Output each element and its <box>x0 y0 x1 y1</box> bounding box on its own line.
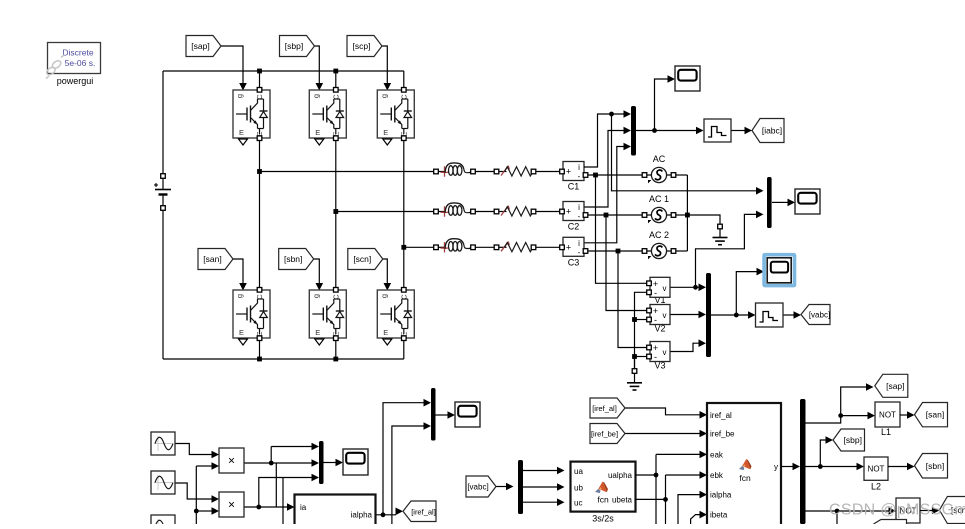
wire [iref_al] to fcn <box>625 408 707 419</box>
node Mux1 out junction <box>652 128 657 133</box>
wire [sbp] to gate <box>315 46 324 91</box>
current measurement C3 <box>560 237 588 267</box>
svg-text:E: E <box>383 328 388 337</box>
node V1 out junction <box>693 285 698 290</box>
node DC+ bus junctions <box>257 69 338 74</box>
svg-text:g: g <box>235 94 244 98</box>
wire RC-C3 <box>534 246 564 248</box>
wire RB-C2 <box>534 211 564 213</box>
wire L2 to [sbn] <box>888 463 915 471</box>
wire phase C line to filter <box>404 246 438 248</box>
mux Mux5 <box>431 388 436 441</box>
wire Product2 out to subsystem ia <box>244 503 295 511</box>
svg-text:ialpha: ialpha <box>351 511 373 520</box>
wire V3 plus tap <box>618 251 647 348</box>
IGBT Q2 <box>309 88 346 146</box>
wire V1 branch to Mux2 in2 <box>696 211 764 288</box>
wire Mux4 in3 <box>259 474 319 507</box>
svg-text:[san]: [san] <box>203 254 221 264</box>
wire V2 plus tap <box>606 215 647 311</box>
svg-text:E: E <box>383 128 388 137</box>
goto tag [iref_al] (bottom) <box>403 501 436 522</box>
wire ZOH1 to [iabc] <box>731 127 752 135</box>
svg-text:L1: L1 <box>881 427 891 437</box>
svg-text:5e-06 s.: 5e-06 s. <box>65 58 96 68</box>
svg-text:iref_be: iref_be <box>710 430 735 439</box>
wire Product1 out <box>244 443 319 467</box>
svg-text:AC 1: AC 1 <box>649 194 669 204</box>
wire V1 plus tap <box>596 175 648 283</box>
inductor La <box>434 163 476 177</box>
wire V1 minus to neutral rail <box>635 292 648 369</box>
svg-text:[iref_be]: [iref_be] <box>591 430 618 439</box>
svg-text:+: + <box>566 167 571 177</box>
svg-text:-: - <box>654 288 657 298</box>
MATLAB function 3s/2s <box>571 462 636 524</box>
node C1 i branch junction <box>609 112 614 117</box>
svg-text:ub: ub <box>574 484 583 493</box>
IGBT Q6 <box>377 288 414 346</box>
svg-text:g: g <box>311 94 320 98</box>
svg-text:[iref_al]: [iref_al] <box>411 507 436 516</box>
node AC neutral junction <box>685 213 690 218</box>
wire Demux2 row3 to NOT and [scp] <box>806 507 897 524</box>
wire [scn] to gate <box>383 259 391 291</box>
node phase C junction <box>401 245 406 250</box>
svg-text:E: E <box>239 128 244 137</box>
wire C3 minus to AC2 <box>584 250 645 252</box>
svg-text:y: y <box>774 463 778 472</box>
svg-text:v: v <box>663 311 667 320</box>
from tag [san] <box>198 249 233 270</box>
svg-text:E: E <box>239 328 244 337</box>
wire phase C vertical leg <box>403 71 405 290</box>
wire neutral to ground <box>687 215 720 224</box>
node DC- bus junctions <box>257 357 338 362</box>
from tag [iref_al] <box>590 398 625 418</box>
node C3 minus junction <box>616 249 621 254</box>
wire Demux2 row2 to NOT L2 and [sbp] <box>806 436 865 470</box>
svg-text:ibeta: ibeta <box>710 511 728 520</box>
voltage measurement V3 <box>647 342 670 371</box>
resistor Rc <box>494 241 536 252</box>
IGBT Q1 <box>233 88 270 146</box>
wire ia feedback to products <box>194 462 219 524</box>
svg-text:g: g <box>235 294 244 298</box>
svg-text:[sap]: [sap] <box>191 41 209 51</box>
wire C1 i branch to Mux2 in1 <box>612 114 764 195</box>
svg-text:v: v <box>663 348 667 357</box>
wire ubeta to ebk <box>636 471 708 524</box>
svg-text:eak: eak <box>710 451 724 460</box>
wire phase B line to filter <box>336 211 438 213</box>
svg-text:fcn: fcn <box>597 495 609 505</box>
wire ialpha out <box>375 508 403 518</box>
wire C2 minus to AC1 <box>584 214 645 216</box>
svg-text:-: - <box>578 172 581 181</box>
wire ZOH2 to [vabc] <box>783 311 801 319</box>
subsystem (current controller) <box>295 495 376 528</box>
svg-text:ua: ua <box>574 467 583 476</box>
svg-text:×: × <box>228 498 235 512</box>
node C2 minus junction <box>604 213 609 218</box>
svg-text:NOT: NOT <box>868 465 885 474</box>
current measurement C2 <box>560 202 588 232</box>
wire [sap] to gate <box>221 46 247 91</box>
IGBT Q3 <box>377 88 414 146</box>
svg-text:C1: C1 <box>568 182 580 192</box>
from tag [iref_be] <box>590 424 625 444</box>
svg-text:NOT: NOT <box>879 411 896 420</box>
wire DC source left rail <box>162 71 164 359</box>
svg-text:g: g <box>379 94 388 98</box>
from tag [sbn] <box>279 249 314 270</box>
logical NOT L1 <box>875 402 900 437</box>
goto tag [iabc] <box>752 119 784 143</box>
mux Mux1 <box>631 106 636 156</box>
voltage measurement V2 <box>647 305 670 334</box>
svg-text:3s/2s: 3s/2s <box>592 514 614 524</box>
inductor Lb <box>434 203 476 217</box>
from tag [sap] <box>186 36 221 57</box>
svg-text:V2: V2 <box>654 324 665 334</box>
svg-text:i: i <box>578 203 580 212</box>
svg-text:-: - <box>578 212 581 221</box>
wire C1 i output to Mux1 in1 <box>584 110 631 167</box>
wire branch to Scope1 <box>655 75 676 130</box>
wire Demux1 out ua <box>523 467 565 475</box>
product Product2 <box>219 492 244 517</box>
scope Scope1 <box>675 66 700 91</box>
wire Mux2 out to Scope2 <box>772 199 795 207</box>
svg-text:[sbn]: [sbn] <box>284 254 302 264</box>
product Product1 <box>219 448 244 473</box>
svg-text:E: E <box>315 128 320 137</box>
wire phase A line to filter <box>260 171 439 173</box>
goto tag [scp] (clipped) <box>874 520 907 525</box>
svg-text:[sbp]: [sbp] <box>285 41 303 51</box>
svg-text:i: i <box>578 239 580 248</box>
wire L3 to [scn] <box>920 507 939 515</box>
powergui block <box>45 43 100 87</box>
logical NOT L2 <box>864 457 888 492</box>
DC voltage source <box>154 174 171 211</box>
AC source AC <box>642 154 676 183</box>
wire ialpha into fcn <box>678 491 707 524</box>
AC source AC 1 <box>642 194 676 223</box>
wire [sbn] to gate <box>314 259 323 291</box>
wire Sine1 to Product1 <box>175 444 219 459</box>
IGBT Q4 <box>233 288 270 346</box>
sine wave Sine3 <box>151 515 175 529</box>
ground (AC neutral) <box>713 224 728 245</box>
mux Mux4 <box>319 441 324 484</box>
watermark CSDN <box>829 502 965 519</box>
current measurement C1 <box>560 162 588 192</box>
goto tag [scn] <box>939 497 965 524</box>
wire RA-C1 <box>534 171 564 173</box>
wire DC+ bus (top) <box>163 70 404 72</box>
wire Mux3 out <box>711 311 756 319</box>
goto tag [sap] <box>875 374 908 397</box>
svg-text:g: g <box>311 294 320 298</box>
zero-order hold ZOH2 <box>756 303 784 327</box>
wire phase B vertical leg <box>335 138 337 290</box>
MATLAB function fcn (controller) <box>707 403 781 529</box>
demux Demux2 <box>800 399 806 524</box>
svg-text:L2: L2 <box>871 482 881 492</box>
svg-text:AC 2: AC 2 <box>649 230 669 240</box>
wire Demux1 out uc <box>523 498 565 506</box>
wire V3 out to Mux3 in3 <box>670 339 706 351</box>
scope Scope2 <box>795 189 820 214</box>
svg-text:[san]: [san] <box>926 410 944 420</box>
svg-text:Discrete: Discrete <box>62 48 93 58</box>
svg-text:[sbp]: [sbp] <box>844 435 862 445</box>
wire Sine2 to Product2 <box>175 483 219 503</box>
wire LC-RC <box>475 246 497 248</box>
inductor Lc <box>434 239 476 253</box>
wire C2 i output to Mux1 in2 <box>584 127 631 207</box>
mux Mux2 <box>767 177 772 228</box>
wire AC neutral vertical <box>674 175 688 251</box>
from tag [sbp] <box>280 36 315 57</box>
svg-text:C2: C2 <box>568 222 580 232</box>
svg-text:uc: uc <box>574 499 582 508</box>
svg-text:[vabc]: [vabc] <box>467 483 488 492</box>
wire [san] to gate <box>233 259 247 291</box>
from tag [vabc] <box>466 476 496 497</box>
wire [iref_be] to fcn <box>625 430 707 438</box>
wire LA-RA <box>475 171 497 173</box>
svg-text:ialpha: ialpha <box>710 491 732 500</box>
goto tag [sbn] <box>915 454 948 479</box>
wire V2 minus stub <box>635 319 648 321</box>
svg-text:[iabc]: [iabc] <box>762 126 782 136</box>
svg-text:[scn]: [scn] <box>353 254 371 264</box>
wire Mux5 in2 <box>392 422 431 524</box>
svg-text:[iref_al]: [iref_al] <box>592 404 617 413</box>
wire V3 minus stub <box>635 356 648 358</box>
wire C3 i output to Mux1 in3 <box>584 143 631 243</box>
sine wave Sine2 <box>151 471 175 494</box>
wire [vabc] to Demux1 <box>496 483 514 491</box>
wire ualpha to eak <box>636 451 708 524</box>
svg-text:CSDN @pMSSGmail: CSDN @pMSSGmail <box>829 502 965 519</box>
svg-text:[scp]: [scp] <box>353 41 371 51</box>
wire C1 minus to AC <box>584 174 645 176</box>
goto tag [sbp] <box>833 429 865 451</box>
wire V1 out to Mux3 in1 <box>670 284 706 292</box>
wire Demux1 out ub <box>523 483 565 491</box>
wire V2 out to Mux3 in2 <box>670 311 706 319</box>
svg-text:V3: V3 <box>654 361 665 371</box>
wire ialpha branch to Mux5 in1 <box>383 399 431 515</box>
node V2 neutral junction <box>632 317 637 322</box>
svg-text:powergui: powergui <box>57 76 94 86</box>
wire Mux5 out to Scope5 <box>435 411 455 419</box>
ground (V neutral) <box>627 359 642 391</box>
svg-text:[sap]: [sap] <box>886 381 904 391</box>
wire Mux4 out to Scope4 <box>324 459 344 467</box>
sine wave Sine1 <box>151 432 175 455</box>
wire C-port drops from DC+ bus <box>260 71 336 90</box>
wire Mux1 out <box>636 127 704 135</box>
wire [scp] to gate <box>382 46 391 91</box>
svg-text:g: g <box>379 294 388 298</box>
wire y to Demux2 <box>781 463 800 471</box>
wire ibeta into fcn <box>691 511 707 524</box>
svg-text:E: E <box>315 328 320 337</box>
wire branch to Scope3 <box>736 268 764 315</box>
wire phase A vertical leg <box>259 138 261 290</box>
wire aux vertical a <box>275 463 277 507</box>
svg-text:-: - <box>578 248 581 257</box>
wire LB-RB <box>475 211 497 213</box>
svg-text:[vabc]: [vabc] <box>809 311 830 320</box>
logical NOT L3 <box>896 498 920 523</box>
svg-text:+: + <box>566 207 571 217</box>
resistor Ra <box>494 165 536 176</box>
svg-text:i: i <box>578 163 580 172</box>
scope Scope4 <box>343 449 368 475</box>
scope Scope3 (selected) <box>762 253 796 288</box>
svg-text:C3: C3 <box>568 258 580 268</box>
node phase B junction <box>333 209 338 214</box>
voltage measurement V1 <box>647 277 670 298</box>
scope Scope5 <box>455 402 480 427</box>
svg-text:[sbn]: [sbn] <box>926 461 944 471</box>
zero-order hold ZOH1 <box>704 119 731 142</box>
svg-text:+: + <box>566 242 571 252</box>
IGBT Q5 <box>309 288 346 346</box>
wire L1 to [san] <box>900 411 915 419</box>
svg-text:AC: AC <box>653 154 666 164</box>
svg-text:iref_al: iref_al <box>710 411 732 420</box>
wire lower E legs to DC- bus <box>260 338 404 359</box>
svg-text:ubeta: ubeta <box>612 496 633 505</box>
node C1 minus junction <box>593 173 598 178</box>
mux Mux3 <box>706 273 711 357</box>
svg-text:ebk: ebk <box>710 471 724 480</box>
from tag [scp] <box>347 36 382 57</box>
svg-text:ia: ia <box>300 503 307 512</box>
node Mux3 out junction <box>734 313 739 318</box>
node phase A junction <box>257 169 262 174</box>
wire aux vertical b <box>282 478 284 525</box>
demux Demux1 <box>518 460 523 514</box>
wire Demux2 row1 to NOT L1 and [sap] <box>806 383 876 423</box>
AC source AC 2 <box>642 230 676 259</box>
svg-text:×: × <box>228 454 235 468</box>
goto tag [vabc] <box>801 305 830 325</box>
svg-text:ualpha: ualpha <box>608 471 633 480</box>
label V1 <box>654 295 665 305</box>
svg-text:v: v <box>663 284 667 293</box>
node V3 neutral junction <box>632 354 637 359</box>
svg-text:fcn: fcn <box>739 473 751 483</box>
wire DC- bus (bottom) <box>163 358 404 360</box>
from tag [scn] <box>348 249 383 270</box>
resistor Rb <box>494 205 536 216</box>
goto tag [san] <box>915 403 948 427</box>
